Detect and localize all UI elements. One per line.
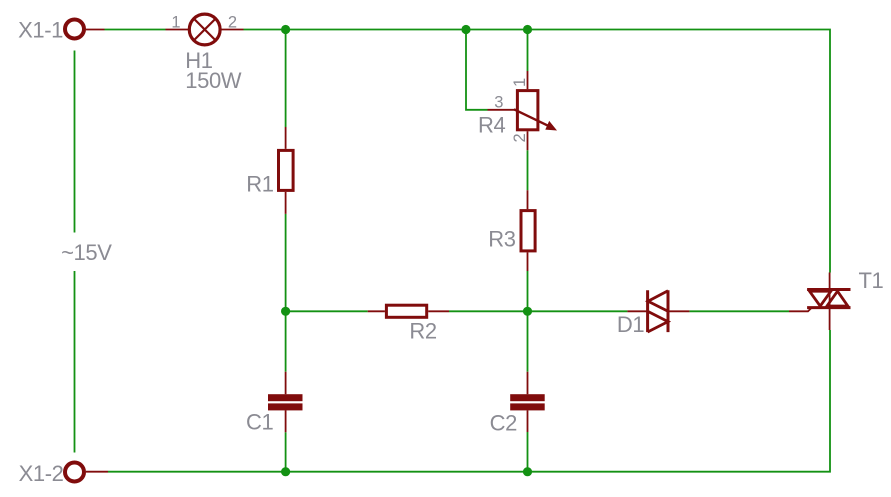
svg-text:D1: D1 — [617, 312, 644, 337]
svg-text:2: 2 — [228, 13, 237, 31]
svg-text:150W: 150W — [185, 68, 242, 93]
svg-text:X1-2: X1-2 — [19, 461, 64, 486]
svg-text:R3: R3 — [488, 226, 515, 251]
svg-text:T1: T1 — [859, 268, 884, 293]
svg-text:2: 2 — [511, 133, 529, 142]
svg-text:X1-1: X1-1 — [18, 18, 63, 43]
svg-text:~15V: ~15V — [61, 240, 112, 265]
svg-text:R2: R2 — [409, 318, 436, 343]
svg-text:1: 1 — [511, 78, 529, 87]
svg-text:R4: R4 — [478, 112, 505, 137]
svg-text:C2: C2 — [490, 411, 517, 436]
svg-text:R1: R1 — [246, 172, 273, 197]
svg-text:C1: C1 — [246, 410, 273, 435]
svg-text:3: 3 — [494, 94, 503, 112]
svg-text:1: 1 — [171, 13, 180, 31]
